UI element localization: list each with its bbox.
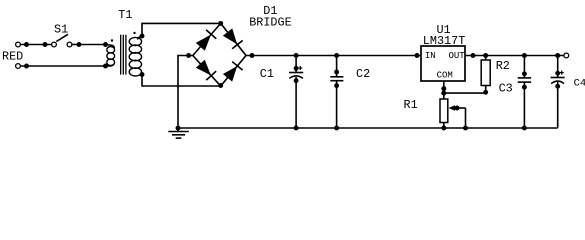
svg-text:LM317T: LM317T	[423, 34, 465, 48]
diode D1c triangle	[196, 60, 211, 76]
node COM junction	[441, 91, 446, 96]
terminal RED bottom	[16, 64, 21, 69]
node T1 primary bottom	[103, 64, 108, 69]
switch S1 blade	[56, 34, 68, 41]
wire bottom input to T1	[21, 65, 106, 67]
potentiometer R1 box	[440, 99, 448, 123]
transformer T1 secondary winding	[138, 36, 143, 40]
top rail left section	[246, 55, 421, 57]
top rail right section	[465, 55, 564, 57]
svg-text:COM: COM	[437, 70, 453, 80]
node bridge right	[250, 53, 255, 58]
svg-text:IN: IN	[425, 51, 436, 61]
bottom rail	[178, 127, 558, 129]
node on bottom input wire	[24, 64, 29, 69]
wire bridge left to ground rail	[178, 56, 193, 129]
ground node	[176, 126, 181, 131]
wire COM to R2	[444, 92, 486, 94]
ground symbol	[177, 128, 179, 132]
node before S1	[43, 42, 48, 47]
svg-text:C3: C3	[499, 82, 513, 96]
svg-text:C4: C4	[574, 77, 585, 89]
svg-text:C1: C1	[260, 67, 274, 81]
diode D1a triangle	[196, 35, 211, 51]
diode D1a bar	[206, 30, 216, 39]
node U1 IN pin	[415, 53, 420, 58]
node COM terminal	[441, 86, 446, 91]
node on top input wire	[24, 42, 29, 47]
svg-text:BRIDGE: BRIDGE	[249, 16, 291, 30]
switch S1 contacts	[52, 42, 57, 47]
resistor R2	[485, 56, 487, 61]
diode D1b triangle	[223, 28, 237, 44]
node bridge bottom	[218, 83, 223, 88]
wire top input to S1	[21, 44, 52, 46]
node after S1	[77, 42, 82, 47]
node T1 primary top	[103, 42, 108, 47]
svg-text:T1: T1	[118, 8, 132, 22]
svg-text:S1: S1	[54, 23, 68, 37]
diode D1d triangle	[223, 66, 237, 81]
capacitor C1	[295, 56, 297, 73]
svg-text:R2: R2	[496, 59, 510, 73]
node T1 secondary bottom	[140, 72, 145, 77]
capacitor C2	[336, 56, 338, 77]
phase dot secondary	[133, 32, 135, 34]
diode D1c bar	[206, 71, 216, 80]
diode D1d bar	[232, 62, 242, 71]
bridge D1 diamond edges	[193, 23, 246, 86]
capacitor C4	[557, 56, 559, 78]
node bridge top	[218, 21, 223, 26]
R1 bottom stem	[443, 123, 445, 129]
diode D1b bar	[232, 40, 243, 48]
svg-text:C2: C2	[356, 67, 370, 81]
wire U1 COM stem	[443, 81, 445, 99]
node T1 secondary top	[140, 34, 145, 39]
R1 wiper arrow	[449, 105, 456, 111]
svg-text:RED: RED	[2, 50, 23, 64]
wire S1 to T1 primary	[72, 44, 105, 46]
transformer T1 primary winding	[106, 45, 115, 49]
node bridge left	[186, 53, 191, 58]
svg-text:R1: R1	[404, 98, 418, 112]
capacitor C3	[523, 56, 525, 78]
output terminal	[564, 53, 569, 58]
node U1 OUT pin	[471, 53, 476, 58]
wire secondary bottom to bridge	[142, 75, 221, 87]
regulator U1 box	[421, 46, 465, 81]
svg-text:OUT: OUT	[449, 51, 466, 61]
wire secondary top to bridge	[142, 23, 221, 36]
transformer T1 core	[120, 35, 122, 75]
phase dot primary	[111, 39, 113, 41]
terminal RED top	[16, 42, 21, 47]
